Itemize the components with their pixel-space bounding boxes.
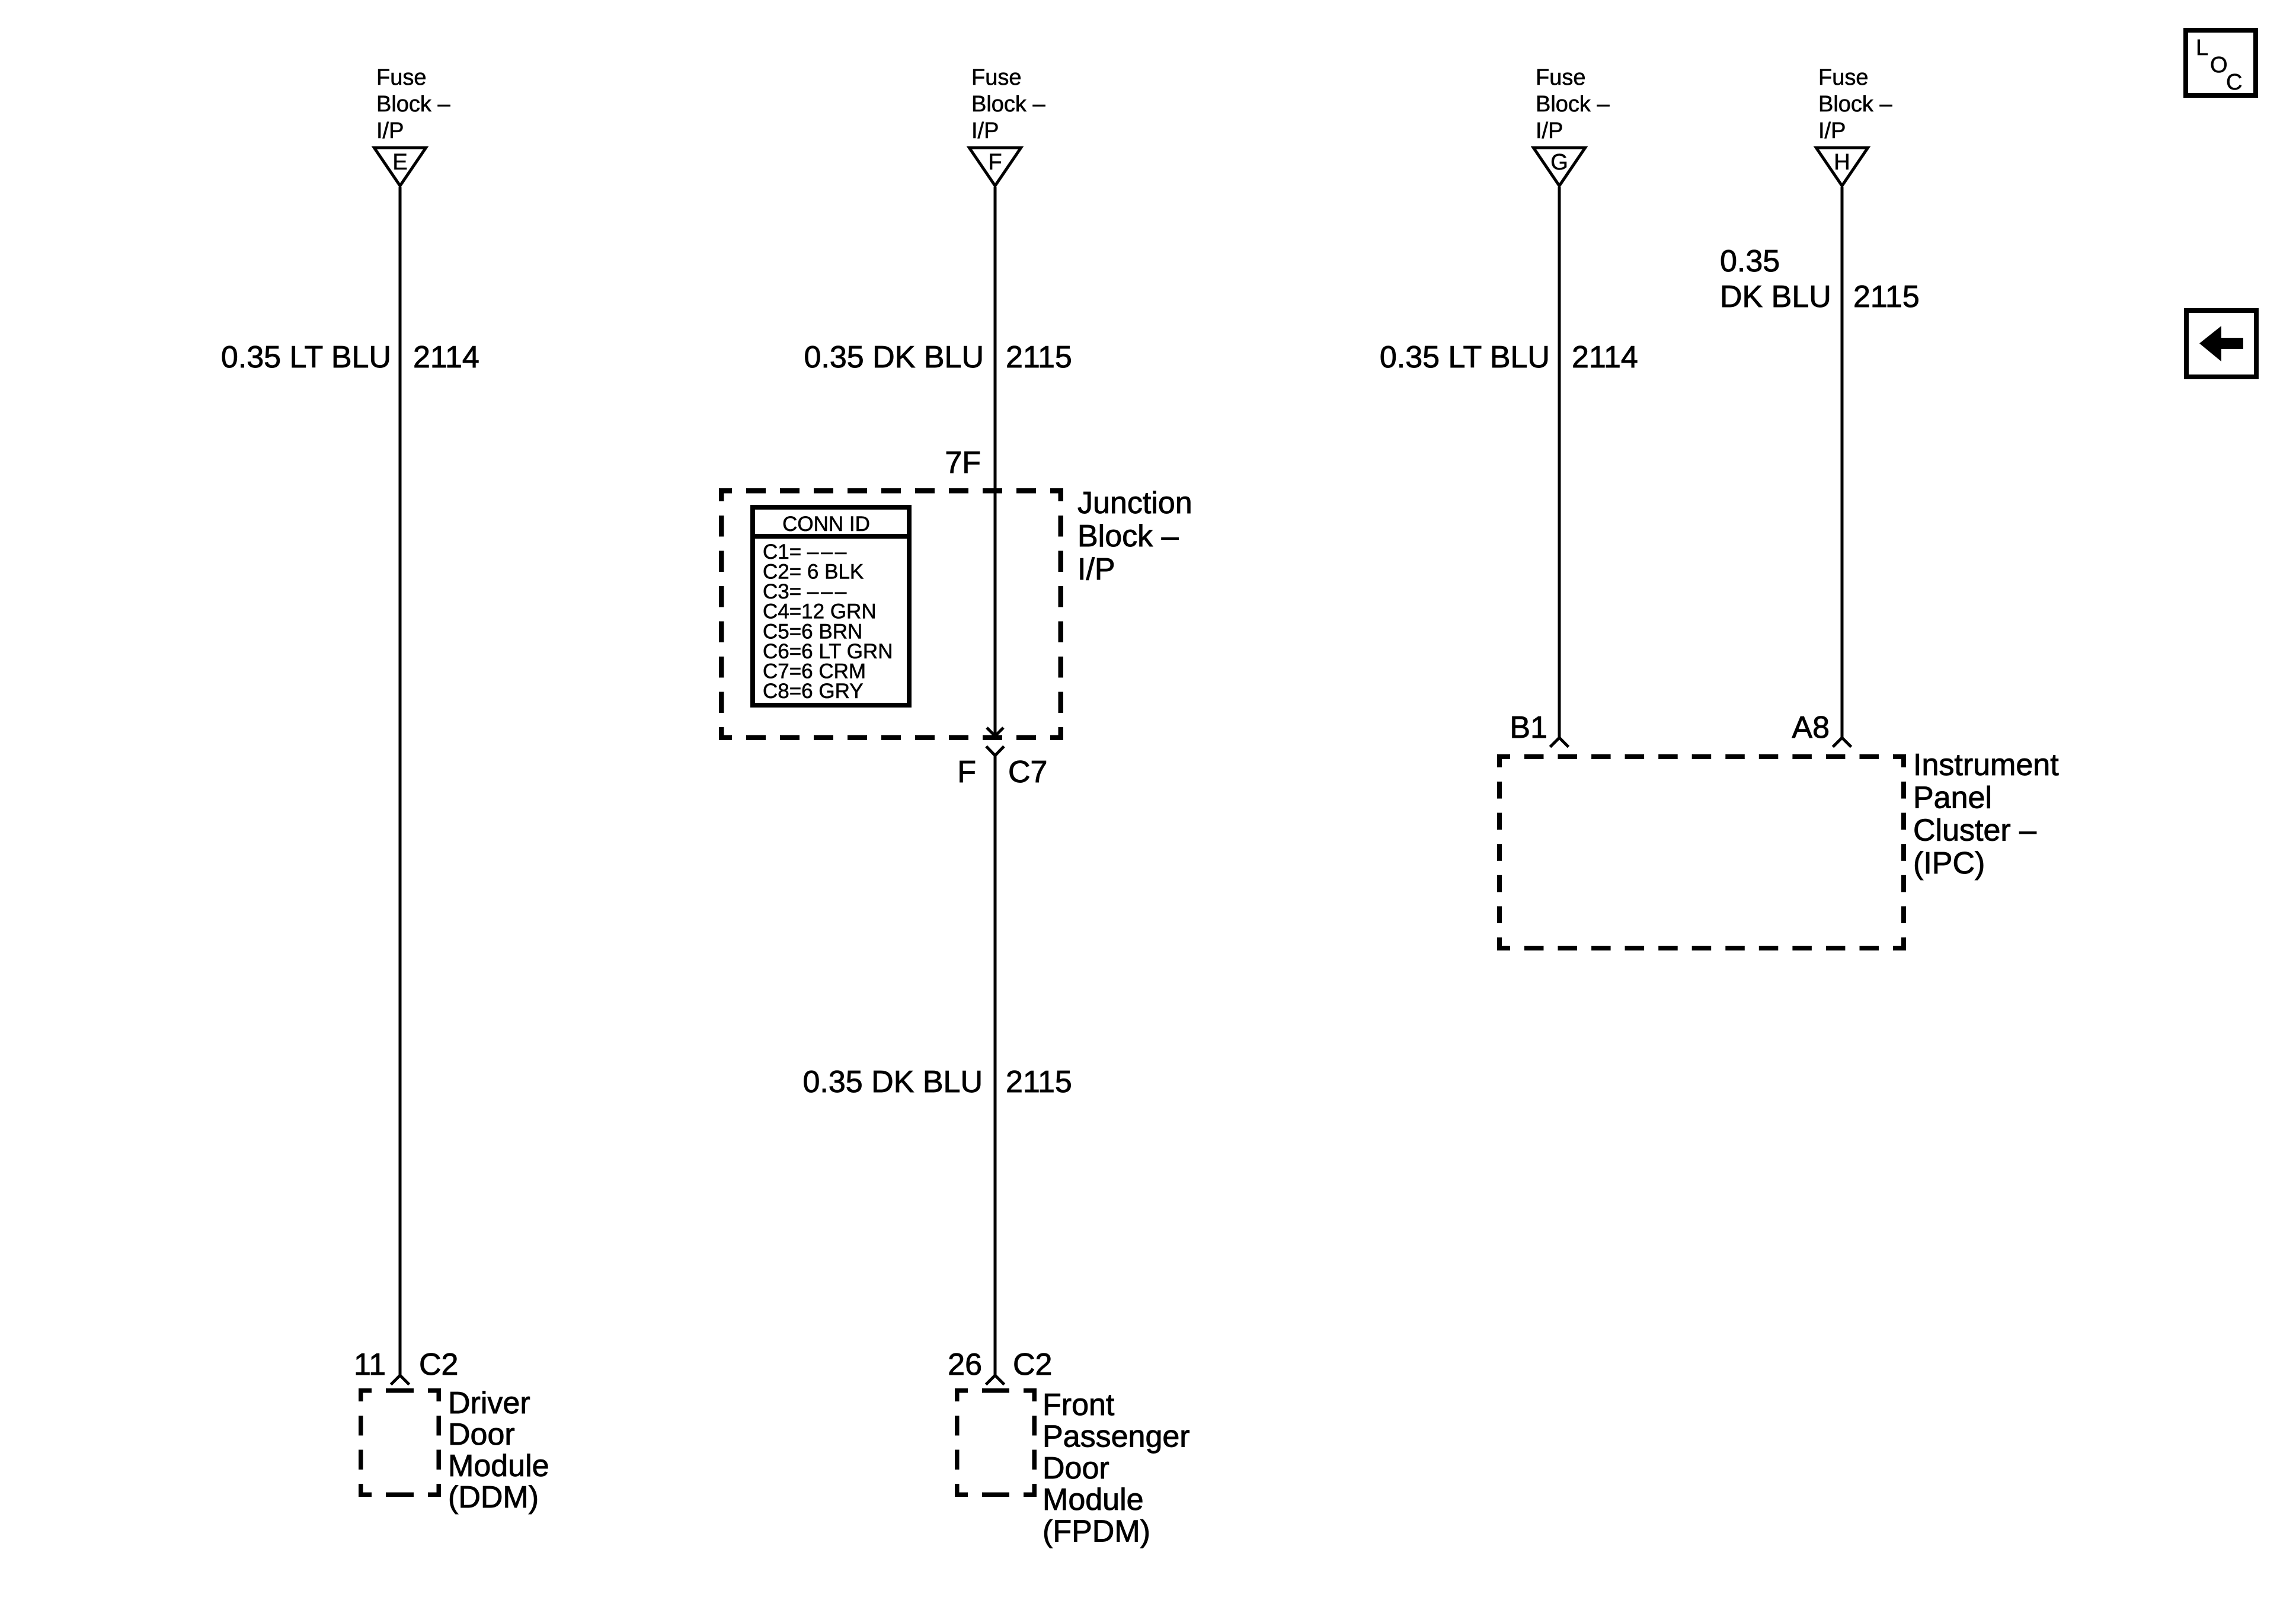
svg-text:0.35: 0.35 xyxy=(1720,244,1780,279)
svg-text:I/P: I/P xyxy=(1077,552,1115,587)
svg-text:Fuse: Fuse xyxy=(1818,65,1868,90)
svg-text:Fuse: Fuse xyxy=(1536,65,1585,90)
svg-text:F: F xyxy=(957,755,976,789)
svg-text:2114: 2114 xyxy=(413,340,479,375)
svg-text:(DDM): (DDM) xyxy=(448,1480,539,1515)
svg-text:I/P: I/P xyxy=(971,119,999,143)
svg-text:Front: Front xyxy=(1043,1388,1115,1422)
svg-text:Passenger: Passenger xyxy=(1043,1419,1190,1454)
svg-text:C2: C2 xyxy=(419,1347,458,1382)
svg-text:Door: Door xyxy=(1043,1451,1109,1486)
svg-text:(IPC): (IPC) xyxy=(1913,846,1985,881)
svg-text:(FPDM): (FPDM) xyxy=(1043,1515,1150,1549)
svg-text:Panel: Panel xyxy=(1913,780,1992,815)
svg-text:2115: 2115 xyxy=(1006,340,1072,375)
svg-text:Fuse: Fuse xyxy=(971,65,1021,90)
svg-text:0.35 DK BLU: 0.35 DK BLU xyxy=(804,340,984,375)
svg-text:C8=6 GRY: C8=6 GRY xyxy=(763,680,864,703)
svg-text:11: 11 xyxy=(354,1347,386,1382)
svg-text:Driver: Driver xyxy=(448,1386,530,1420)
svg-text:I/P: I/P xyxy=(376,119,404,143)
svg-text:C7: C7 xyxy=(1008,755,1047,789)
svg-text:Block –: Block – xyxy=(376,92,450,117)
svg-text:26: 26 xyxy=(948,1347,982,1382)
svg-text:DK BLU: DK BLU xyxy=(1720,280,1831,314)
svg-text:2114: 2114 xyxy=(1572,340,1638,375)
svg-text:E: E xyxy=(392,150,407,175)
svg-text:Block –: Block – xyxy=(1536,92,1610,117)
svg-text:Block –: Block – xyxy=(971,92,1045,117)
svg-text:A8: A8 xyxy=(1792,710,1830,745)
svg-text:Module: Module xyxy=(1043,1483,1144,1517)
svg-text:C: C xyxy=(2226,70,2242,95)
svg-text:L: L xyxy=(2196,36,2208,60)
svg-text:F: F xyxy=(988,150,1002,175)
svg-text:Door: Door xyxy=(448,1417,515,1452)
svg-text:I/P: I/P xyxy=(1536,119,1563,143)
svg-text:0.35 DK BLU: 0.35 DK BLU xyxy=(803,1065,983,1099)
svg-text:Junction: Junction xyxy=(1077,486,1192,520)
svg-text:B1: B1 xyxy=(1510,710,1547,745)
svg-text:I/P: I/P xyxy=(1818,119,1846,143)
svg-text:0.35 LT BLU: 0.35 LT BLU xyxy=(1380,340,1550,375)
svg-text:Block –: Block – xyxy=(1077,519,1179,553)
svg-text:O: O xyxy=(2210,53,2228,78)
svg-text:G: G xyxy=(1550,150,1568,175)
svg-text:Block –: Block – xyxy=(1818,92,1892,117)
svg-text:Instrument: Instrument xyxy=(1913,748,2059,782)
svg-text:0.35 LT BLU: 0.35 LT BLU xyxy=(221,340,391,375)
svg-text:7F: 7F xyxy=(945,446,981,480)
svg-text:2115: 2115 xyxy=(1853,280,1920,314)
svg-text:H: H xyxy=(1834,150,1850,175)
svg-text:Cluster –: Cluster – xyxy=(1913,814,2036,848)
svg-text:Module: Module xyxy=(448,1449,549,1483)
svg-text:Fuse: Fuse xyxy=(376,65,426,90)
svg-text:CONN ID: CONN ID xyxy=(782,513,870,536)
svg-text:C2: C2 xyxy=(1013,1347,1052,1382)
svg-text:2115: 2115 xyxy=(1006,1065,1072,1099)
